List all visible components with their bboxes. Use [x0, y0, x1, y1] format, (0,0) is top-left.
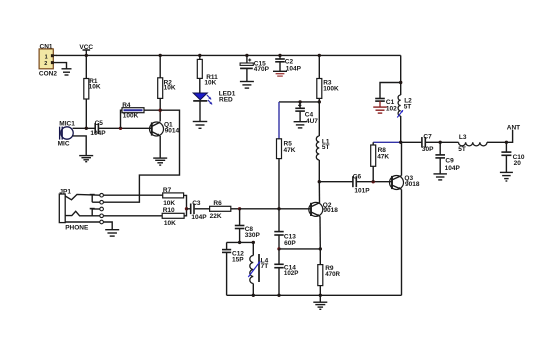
transistor Q3: [390, 176, 404, 190]
label L4 7T: [261, 257, 269, 270]
node R5-C13 junction: [277, 207, 280, 210]
svg-text:104P: 104P: [286, 66, 302, 73]
label C9 104P: [445, 157, 461, 171]
wire audio rail to Q2 base: [240, 208, 311, 210]
label C7 30P: [422, 134, 434, 154]
svg-text:PHONE: PHONE: [65, 225, 89, 232]
node C5-R4 junction: [119, 127, 122, 130]
wire rail to R3: [318, 55, 320, 78]
node C14 bottom junction: [277, 294, 280, 297]
resistor R10: [162, 213, 184, 218]
ground at MIC1: [79, 156, 93, 162]
wire rail to C2: [279, 55, 281, 58]
node rail-C2 junction: [278, 54, 281, 57]
svg-text:470P: 470P: [254, 66, 270, 73]
node R8-Q3 base junction: [372, 180, 375, 183]
svg-text:15P: 15P: [232, 256, 244, 263]
label R4 100K: [122, 102, 138, 119]
phone jack pin 5: [100, 220, 104, 224]
svg-text:60P: 60P: [284, 240, 296, 247]
phone jack JP1 body: [59, 194, 65, 223]
svg-text:R7: R7: [163, 187, 172, 194]
node rail-R11 junction: [198, 54, 201, 57]
svg-text:104P: 104P: [191, 214, 207, 221]
ground at C15: [240, 82, 254, 89]
capacitor C1: [375, 99, 385, 102]
svg-text:102: 102: [386, 105, 397, 112]
phone jack ring contact: [65, 211, 100, 216]
wire branch row: [279, 101, 319, 103]
svg-text:RED: RED: [219, 97, 233, 104]
wire R4 left lead: [121, 110, 123, 128]
resistor R7: [163, 193, 184, 198]
wire emitter row: [279, 248, 320, 250]
wire C10 top lead: [505, 142, 507, 152]
node L2-C7-Q3 junction: [399, 141, 402, 144]
phone jack pin 3: [100, 207, 104, 211]
wire CN1 pin1 to VCC rail: [54, 54, 57, 56]
wire CN1 pin2 to ground: [54, 63, 67, 69]
label C4 4U7: [305, 112, 319, 125]
node L1-Q2 collector junction: [318, 180, 321, 183]
svg-text:102P: 102P: [284, 270, 298, 277]
wire L4 top lead: [252, 242, 254, 255]
wire C5 to Q1 base: [99, 127, 152, 129]
wire bottom rail: [227, 294, 402, 296]
wire C1 to ground (red): [379, 101, 381, 107]
wire L1 to collector node: [318, 160, 320, 182]
wire rail to R11: [199, 55, 201, 59]
node R3-L1 junction: [318, 100, 321, 103]
ground at bottom rail: [313, 295, 327, 309]
ground at C1 (red): [373, 107, 387, 113]
label R8 47K: [377, 147, 389, 160]
svg-text:ANT: ANT: [507, 124, 520, 131]
label C15 470P: [254, 61, 270, 73]
wire C13 bottom lead: [278, 235, 280, 249]
wire C12 to bottom rail: [226, 252, 228, 295]
wire jack pin5 to ground: [103, 222, 112, 229]
wire R8 top lead: [372, 142, 374, 145]
capacitor C7: [422, 137, 425, 148]
node emitter row right junction: [319, 247, 322, 250]
capacitor C15 plus mark: [248, 59, 251, 62]
label L2 5T: [404, 98, 412, 111]
label C13 60P: [284, 233, 296, 247]
label Q3 9018: [404, 175, 419, 188]
wire R9 to bottom rail: [319, 286, 321, 296]
svg-text:470R: 470R: [325, 271, 340, 278]
wire LED1 to ground: [199, 101, 201, 121]
resistor R2: [158, 78, 163, 99]
label R1 10K: [89, 78, 101, 91]
svg-text:20: 20: [514, 160, 522, 167]
svg-text:C7: C7: [423, 134, 432, 141]
microphone MIC1: [60, 127, 74, 140]
svg-text:104P: 104P: [445, 165, 461, 172]
capacitor C5: [95, 123, 98, 134]
phone jack switch contact 1: [90, 195, 100, 203]
ground at jack: [105, 230, 119, 236]
svg-text:R10: R10: [163, 207, 175, 214]
label R3 100K: [323, 79, 339, 92]
capacitor C9: [435, 155, 445, 158]
wire C9 to ground: [439, 158, 441, 174]
node C9 junction: [439, 141, 442, 144]
label C14 102P: [284, 264, 298, 277]
phone jack sleeve contact: [65, 221, 100, 223]
wire C1 branch: [380, 83, 401, 99]
wire C8 bottom lead: [239, 229, 241, 243]
LED LED1: [193, 93, 212, 105]
label L3 5T: [458, 134, 467, 153]
label R2 10K: [164, 79, 176, 91]
phone jack switch contact 2: [90, 209, 100, 216]
node C4 junction: [298, 100, 301, 103]
wire C13 top lead: [278, 209, 280, 232]
wire R1 to mic node: [85, 99, 87, 128]
svg-text:101P: 101P: [354, 187, 370, 194]
wire R3 node to L1: [318, 102, 320, 136]
node VCC junction: [85, 54, 88, 57]
label L1 5T: [322, 138, 330, 151]
wire C14 top lead: [278, 249, 280, 264]
capacitor C8: [235, 226, 245, 229]
svg-text:47K: 47K: [284, 147, 296, 154]
wire C10 to ground: [505, 155, 507, 172]
node C10-ANT junction: [505, 141, 508, 144]
inductor L3: [459, 142, 488, 146]
label C8 330P: [245, 226, 261, 239]
label C1 102: [386, 99, 397, 112]
inductor L1: [316, 136, 319, 160]
capacitor C14: [274, 264, 283, 267]
wire R8 bottom lead: [372, 166, 374, 181]
wire R2 to Q1 collector: [159, 98, 161, 121]
connector CN1 (CON2) body: [39, 49, 54, 69]
wire L3 to antenna node: [487, 141, 506, 143]
node R1-mic junction: [85, 127, 88, 130]
wire to ANT: [506, 130, 512, 142]
svg-text:C6: C6: [353, 173, 362, 180]
wire R6 to C8 node: [231, 208, 240, 210]
wire Q2 collector: [318, 182, 320, 203]
label C12 15P: [232, 250, 244, 263]
inductor L4 adjust arrow: [248, 262, 259, 277]
svg-text:L3: L3: [459, 134, 467, 141]
node R2-R4-Q1 junction: [159, 109, 162, 112]
wire C9 top lead: [439, 142, 441, 154]
wire rail to R1: [85, 55, 87, 78]
wire C12 top lead: [226, 242, 228, 249]
wire rail to R2: [159, 55, 161, 77]
svg-text:5T: 5T: [458, 146, 466, 153]
wire C4 to ground: [299, 111, 301, 121]
inductor L2 adjust arrow: [397, 110, 403, 117]
resistor R9: [318, 265, 323, 286]
wire MIC1 top terminal: [73, 127, 95, 129]
label R11 10K: [204, 74, 218, 87]
ground at LED1: [193, 122, 208, 129]
svg-text:47K: 47K: [377, 153, 389, 160]
label R5 47K: [284, 141, 296, 154]
wire R3 to branch node: [318, 98, 320, 102]
node rail-R2 junction: [159, 54, 162, 57]
ground at C4: [294, 122, 307, 128]
capacitor C4: [295, 108, 305, 111]
svg-text:4U7: 4U7: [306, 118, 318, 125]
node R7-R10 junction: [185, 207, 188, 210]
ground at C10: [500, 172, 513, 181]
node rail-C15 junction: [245, 54, 248, 57]
label Q1 9014: [164, 121, 179, 134]
wire C2 to ground: [279, 62, 281, 71]
inductor L4: [250, 256, 254, 284]
svg-text:9014: 9014: [165, 128, 180, 135]
capacitor C4 plus mark: [298, 104, 301, 107]
capacitor C10: [501, 152, 511, 155]
wire jack pin1 to R7: [103, 194, 162, 196]
wire Q2 emitter down: [319, 216, 321, 249]
wire R8 top (blue): [373, 141, 401, 143]
phone jack pin 1: [100, 193, 104, 197]
ground at Q1 emitter: [153, 158, 167, 165]
wire Q1 collector to jack pin2: [103, 110, 179, 202]
wire join to C3: [187, 208, 191, 210]
wire C7 to C9 node: [426, 141, 440, 143]
resistor R4: [122, 108, 144, 113]
wire C6 to Q3 base: [357, 181, 392, 183]
wire C3 to R6: [195, 208, 210, 210]
svg-text:1: 1: [45, 54, 48, 60]
capacitor C6: [353, 176, 356, 187]
capacitor C3: [191, 204, 194, 215]
resistor R8: [371, 145, 376, 166]
wire R9 top lead: [319, 249, 321, 265]
svg-text:100K: 100K: [123, 113, 139, 120]
svg-text:9018: 9018: [405, 181, 420, 188]
svg-text:MIC: MIC: [58, 140, 70, 147]
wire rail corner down to L2: [400, 55, 402, 95]
wire node to C7: [401, 141, 422, 143]
wire Q1 emitter to ground: [159, 136, 161, 158]
wire collector node to C6: [319, 181, 352, 183]
node rail-R3 junction: [318, 54, 321, 57]
wire Q3 collector: [401, 142, 403, 175]
svg-text:5T: 5T: [322, 144, 330, 151]
wire C15 to ground: [246, 68, 248, 81]
wire L2 to C7 node: [400, 116, 402, 142]
inductor L2: [398, 95, 401, 116]
wire tank row: [227, 241, 254, 243]
wire rail to C15: [246, 55, 248, 63]
svg-text:10K: 10K: [163, 200, 175, 207]
capacitor C2: [275, 59, 285, 62]
label C5 104P: [90, 120, 106, 137]
capacitor C13: [274, 232, 283, 235]
label C10 20: [513, 154, 525, 167]
node L4 bottom junction: [252, 294, 255, 297]
wire Q3 emitter down: [401, 189, 403, 295]
label R9 470R: [325, 265, 340, 278]
svg-text:7T: 7T: [261, 263, 269, 270]
label LED1 RED: [219, 90, 236, 103]
node emitter row left junction: [277, 247, 280, 250]
wire C14 to bottom rail: [278, 268, 280, 295]
svg-text:R6: R6: [213, 200, 222, 207]
node R9-ground junction: [319, 294, 322, 297]
label Q2 9018: [323, 202, 338, 214]
wire R11 to LED1: [199, 78, 201, 93]
wire L4 bottom lead: [252, 284, 254, 296]
phone jack pin 4: [100, 214, 104, 218]
node C8 junction: [238, 207, 241, 210]
svg-text:C5: C5: [95, 120, 104, 127]
wire R5 to audio rail: [278, 159, 280, 209]
ground at C2: [273, 71, 287, 76]
resistor R11: [197, 59, 202, 78]
svg-text:104P: 104P: [90, 130, 106, 137]
ground at C9: [433, 174, 447, 180]
label C2 104P: [285, 59, 302, 73]
svg-text:10K: 10K: [204, 79, 216, 86]
svg-text:10K: 10K: [89, 83, 101, 90]
phone jack pin 2: [100, 200, 104, 204]
svg-text:CON2: CON2: [39, 71, 57, 78]
wire MIC1 bottom terminal to ground: [73, 136, 86, 156]
svg-text:5T: 5T: [404, 103, 412, 110]
svg-text:9018: 9018: [323, 207, 338, 214]
svg-text:C9: C9: [445, 157, 454, 164]
label C6 101P: [353, 173, 370, 194]
wire R4 right lead: [144, 109, 160, 111]
svg-text:10K: 10K: [164, 220, 176, 227]
node C1 junction: [399, 81, 402, 84]
wire C8 top lead: [239, 209, 241, 225]
node C8-tank junction: [238, 241, 241, 244]
svg-text:2: 2: [44, 61, 47, 67]
transistor Q2: [309, 202, 323, 216]
resistor R5: [277, 139, 282, 159]
resistor R1: [84, 79, 89, 100]
svg-text:100K: 100K: [323, 85, 339, 92]
svg-text:330P: 330P: [245, 232, 261, 239]
svg-text:10K: 10K: [164, 85, 176, 92]
wire branch to R5 (blue): [278, 102, 280, 139]
phone jack tip contact: [65, 194, 100, 199]
wire R7-R10 join: [184, 195, 187, 215]
wire C9 node to L3: [440, 141, 458, 143]
wire jack pin4 to R10: [103, 215, 162, 217]
resistor R3: [317, 79, 322, 99]
resistor R6: [210, 206, 231, 211]
svg-text:R4: R4: [122, 102, 131, 109]
wire VCC rail: [56, 54, 401, 56]
node L4 top junction: [252, 241, 255, 244]
wire C4 top lead: [299, 102, 301, 108]
ground at CN1 pin2: [62, 69, 72, 75]
svg-text:30P: 30P: [422, 146, 434, 153]
capacitor C15: [240, 63, 253, 68]
svg-text:C3: C3: [192, 200, 201, 207]
inductor L4 core bar: [258, 254, 260, 282]
svg-text:22K: 22K: [210, 213, 222, 220]
power VCC symbol: [83, 50, 91, 55]
transistor Q1: [150, 122, 164, 136]
capacitor C12: [222, 250, 231, 253]
